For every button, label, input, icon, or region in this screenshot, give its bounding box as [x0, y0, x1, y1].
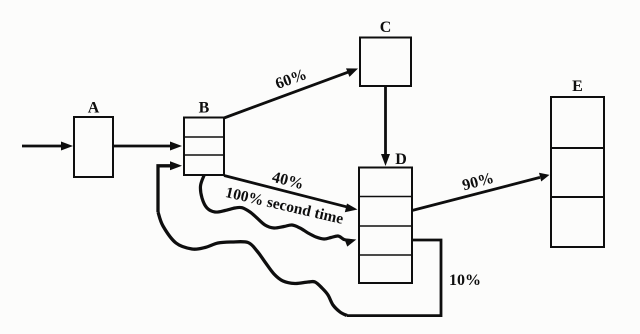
svg-text:A: A [88, 100, 100, 117]
wire input arrow into A [22, 142, 73, 151]
svg-text:C: C [380, 19, 392, 36]
svg-text:B: B [199, 100, 210, 117]
wire B to D wavy (100% second time) [200, 176, 351, 241]
wire D feedback elbow (10%) [347, 240, 441, 316]
box B (queue, 3 cells) [184, 118, 224, 176]
wire B to C (60%) [224, 68, 358, 118]
svg-text:D: D [395, 151, 407, 168]
arrowhead into B [170, 161, 182, 170]
svg-text:10%: 10% [449, 272, 481, 289]
box E (queue, 3 cells) [551, 97, 604, 247]
svg-text:E: E [572, 78, 583, 95]
wire D to E (90%) [412, 173, 550, 211]
wire B to D (40%) [224, 176, 358, 213]
wire C to D [381, 86, 390, 166]
wire A to B [113, 142, 182, 151]
wire feedback snake to B [158, 166, 347, 316]
box A [74, 117, 113, 177]
box C [360, 38, 411, 87]
box D (queue, 4 cells) [359, 168, 412, 284]
